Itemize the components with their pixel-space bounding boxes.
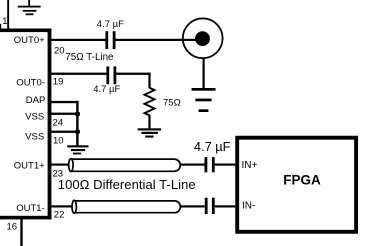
svg-text:75Ω: 75Ω (163, 98, 181, 109)
svg-text:1: 1 (2, 16, 7, 27)
svg-text:4.7 µF: 4.7 µF (97, 19, 124, 30)
svg-text:FPGA: FPGA (283, 172, 321, 187)
svg-text:22: 22 (54, 210, 65, 221)
svg-text:19: 19 (53, 77, 64, 88)
svg-text:75Ω T-Line: 75Ω T-Line (65, 52, 114, 63)
svg-text:OUT0+: OUT0+ (14, 35, 45, 46)
svg-text:100Ω Differential T-Line: 100Ω Differential T-Line (58, 177, 196, 192)
svg-text:IN+: IN+ (242, 160, 258, 171)
svg-text:4.7 µF: 4.7 µF (93, 84, 120, 95)
svg-text:16: 16 (7, 222, 18, 233)
svg-text:24: 24 (53, 117, 64, 128)
svg-text:OUT0-: OUT0- (16, 78, 45, 89)
svg-text:IN-: IN- (242, 201, 255, 212)
svg-text:10: 10 (53, 135, 64, 146)
svg-text:4.7 µF: 4.7 µF (194, 139, 231, 154)
svg-text:DAP: DAP (26, 95, 46, 106)
svg-text:VSS: VSS (25, 112, 44, 123)
svg-text:OUT1+: OUT1+ (14, 160, 45, 171)
svg-text:VSS: VSS (25, 132, 44, 143)
svg-text:OUT1-: OUT1- (16, 203, 45, 214)
svg-text:20: 20 (54, 45, 65, 56)
